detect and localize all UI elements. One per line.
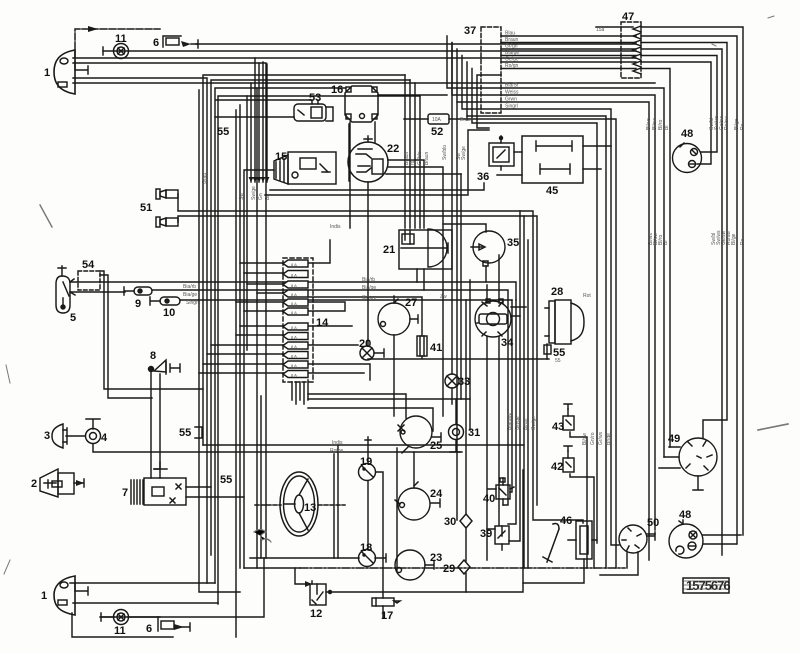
wire battery terminal top	[154, 462, 160, 478]
svg-text:52: 52	[431, 126, 443, 138]
wire 21 top feeds x420	[419, 96, 421, 228]
wire 31 bottom T	[450, 440, 462, 452]
svg-text:Bia/Sr: Bia/Sr	[505, 83, 519, 89]
lamp 18	[359, 550, 387, 567]
connector 51 upper plug	[156, 189, 178, 199]
wire lamp 19 right lead to 17 column	[376, 472, 383, 598]
wire 53 to coil 16	[326, 107, 333, 121]
wire y359 bus 41 to flasher 28	[368, 356, 549, 359]
wire 24 right tick	[431, 499, 440, 507]
svg-text:Bia/rb: Bia/rb	[362, 277, 375, 283]
svg-text:40: 40	[483, 493, 495, 505]
svg-text:Bia/ge: Bia/ge	[362, 285, 376, 291]
svg-text:Ro: Ro	[740, 123, 746, 130]
svg-text:Bia/ge: Bia/ge	[505, 50, 519, 56]
wire battery right pins	[186, 487, 244, 497]
svg-text:8 A: 8 A	[291, 344, 297, 349]
svg-text:Br/ge: Br/ge	[606, 433, 612, 445]
horn relay 35	[471, 231, 505, 266]
wire center bundle x255	[254, 58, 256, 182]
wire 53 left lead	[215, 116, 294, 118]
svg-text:13: 13	[304, 502, 316, 514]
svg-text:8 A: 8 A	[291, 363, 297, 368]
starter 2	[40, 469, 74, 497]
wire 34 bottom drops	[487, 337, 499, 560]
svg-text:45: 45	[546, 185, 558, 197]
wire 51 upper lead across	[178, 194, 583, 523]
wire bottom bus y617	[100, 558, 264, 617]
wire 12 left loop	[295, 568, 305, 584]
wire center bundle x259	[258, 63, 260, 182]
svg-text:30: 30	[444, 516, 456, 528]
wire 49 bottom T	[693, 476, 703, 490]
connector 37 dashed	[481, 27, 501, 113]
svg-text:Ro/sw: Ro/sw	[724, 116, 730, 130]
wire 23 right tick	[425, 561, 434, 569]
wire y78 from headlamp to left frame	[73, 78, 207, 583]
svg-text:54: 54	[82, 259, 95, 271]
switch 43	[563, 404, 574, 430]
wire y63 from headlamp to center bundle	[73, 63, 266, 558]
svg-text:41: 41	[430, 342, 442, 354]
svg-text:Singrl: Singrl	[505, 104, 518, 110]
wire steering 13 left dash	[255, 504, 281, 506]
svg-text:Grau: Grau	[202, 173, 208, 184]
svg-text:48: 48	[679, 509, 691, 521]
headlamp 1 bottom	[54, 576, 88, 615]
wire 36 to 45 link	[514, 151, 522, 153]
svg-text:1: 1	[41, 590, 47, 602]
svg-text:Ro/gn: Ro/gn	[505, 63, 519, 69]
svg-text:Emoe: Emoe	[460, 117, 473, 123]
relay 53	[294, 100, 326, 121]
wire 22 lower right lead	[386, 173, 461, 175]
wire bus y51 through lamp 11 to 47	[103, 50, 636, 52]
svg-text:5: 5	[70, 312, 76, 324]
wire x338 drop	[334, 446, 338, 558]
switch 5	[56, 266, 75, 313]
wire 27 top feed	[393, 296, 395, 303]
svg-text:Singre: Singre	[362, 295, 377, 301]
wire 54 right loop down	[100, 271, 203, 398]
svg-text:8 A: 8 A	[291, 273, 297, 278]
wire x477 drop to relay 36	[477, 75, 501, 128]
lamp 19	[359, 464, 376, 481]
dimmer 54 dashed	[78, 271, 100, 290]
wire 27 bottom to 25	[393, 335, 395, 416]
svg-text:55: 55	[220, 474, 232, 486]
wire y300 bus from connector 10	[180, 299, 512, 301]
svg-text:9: 9	[135, 298, 141, 310]
wire switch 5 top leads into dashed 54	[70, 282, 125, 292]
svg-text:Bia/ge: Bia/ge	[183, 292, 197, 298]
ring 4	[86, 429, 101, 444]
wire 47 pin 15a lead	[596, 27, 743, 535]
bracket 55 mid-left	[195, 427, 202, 438]
svg-text:8 A: 8 A	[291, 373, 297, 378]
svg-text:6: 6	[146, 623, 152, 635]
cutout relay 21	[399, 229, 452, 269]
relay 12	[305, 581, 332, 605]
wire harness 37 row3	[501, 49, 722, 555]
svg-text:21: 21	[383, 244, 395, 256]
svg-text:33: 33	[458, 376, 470, 388]
wire 31 top feed	[455, 399, 457, 424]
wire 28 bottom left drop	[546, 344, 548, 359]
wire 6b right arrow lead	[176, 623, 190, 631]
wire 48b right pins	[703, 535, 741, 544]
drawing number plate	[683, 578, 729, 593]
svg-text:55: 55	[555, 358, 561, 364]
switch 39	[495, 526, 509, 544]
wire bus y44 from connector 6 to 47	[196, 43, 636, 45]
wiper motor 15	[274, 152, 336, 184]
wire left frame x199	[198, 90, 200, 583]
wire stop switch 46 leads	[568, 540, 597, 543]
wire x516 to 39 top pin	[508, 300, 516, 524]
wire stack long y399	[308, 398, 470, 400]
wire x397 cluster bus	[396, 448, 398, 570]
wire 17 column	[382, 606, 384, 618]
svg-text:Rot: Rot	[583, 293, 591, 299]
wire 46 pedal lever	[543, 524, 559, 562]
fusebox 45	[522, 136, 583, 183]
wire 21 top feeds x405	[404, 75, 406, 228]
wire horn 3 to ring 4	[66, 435, 85, 437]
headlamp relay 48 top	[673, 143, 702, 173]
wire 45 right pin2	[583, 168, 601, 170]
svg-text:42: 42	[551, 461, 563, 473]
wire 33 feed	[451, 43, 453, 404]
wire lamp 11b to 6b	[128, 616, 160, 618]
wire x512 to 40 right pin	[510, 300, 512, 492]
wire fuse right leads going right	[308, 240, 422, 380]
wire ring 4 down then right	[93, 444, 460, 452]
fuse strip 14 dashed box	[283, 258, 313, 382]
thermo switch 17	[372, 598, 400, 606]
wire x457 long drop	[456, 102, 458, 520]
svg-text:Zw: Zw	[440, 294, 447, 300]
svg-text:Indis: Indis	[330, 224, 341, 230]
svg-text:8 A: 8 A	[291, 325, 297, 330]
wire ring 4 T-top	[86, 419, 100, 429]
wire stack into 25 right	[308, 408, 433, 431]
svg-text:27: 27	[405, 297, 417, 309]
wire 35 bottom	[485, 266, 487, 282]
svg-text:11: 11	[114, 625, 126, 637]
wire headlamp 1b top bus	[70, 582, 215, 584]
wire harness 37 row2	[501, 43, 727, 439]
svg-text:Bia/rb: Bia/rb	[183, 284, 196, 290]
svg-text:20: 20	[359, 338, 371, 350]
svg-text:2: 2	[31, 478, 37, 490]
svg-text:6: 6	[153, 37, 159, 49]
wire coil 16 bottom to regulator 22	[374, 122, 376, 142]
svg-text:17: 17	[381, 610, 393, 622]
tiny fuse labels 8A	[291, 262, 297, 378]
diamond 29	[458, 560, 470, 574]
wire steering 13 right dash	[318, 504, 345, 506]
wire left frame x211 with top run	[211, 80, 410, 555]
wire headlamp 1b bottom loop	[72, 613, 173, 637]
svg-text:25: 25	[430, 440, 442, 452]
svg-text:Braun: Braun	[424, 151, 430, 165]
svg-text:Sw/ge: Sw/ge	[461, 146, 467, 160]
wire 34 top feeds	[487, 255, 526, 316]
wire harness2 row y116	[467, 62, 606, 568]
wire harness2 row y88	[447, 36, 664, 457]
svg-text:7: 7	[122, 487, 128, 499]
svg-text:36: 36	[477, 171, 489, 183]
wire 6b arrowhead	[174, 624, 184, 630]
svg-text:Sw/blo: Sw/blo	[442, 145, 448, 160]
battery 7	[131, 469, 186, 505]
coil 16	[345, 86, 378, 122]
wire 50 bottom drops	[600, 552, 638, 575]
wire under 15 y195	[265, 130, 489, 195]
svg-text:rot: rot	[410, 159, 416, 165]
flasher 28	[544, 300, 584, 354]
wire bottom bus y558	[250, 557, 359, 559]
wire cigar lighter 8 drops	[151, 371, 160, 478]
svg-text:Bl: Bl	[265, 196, 271, 200]
wire fuse strip bottom stubs	[292, 380, 308, 404]
wire y290 bus from connector 9	[152, 290, 508, 505]
wire 22 right lead 2	[388, 167, 443, 240]
svg-text:Gr/gn: Gr/gn	[505, 44, 518, 50]
wire x257 long drop	[256, 88, 258, 568]
wire fuse feeds left column	[199, 263, 288, 373]
wire left frame x215 run to coil 16	[215, 88, 345, 583]
wire bus y58 from headlamp 1 to 47	[73, 57, 636, 59]
svg-text:8 A: 8 A	[291, 335, 297, 340]
switch 40	[496, 478, 514, 499]
regulator 22	[348, 124, 388, 182]
wire 49 left pins	[659, 447, 680, 468]
wire 21 top feeds x410	[409, 80, 411, 228]
svg-text:46: 46	[560, 515, 572, 527]
svg-text:8: 8	[150, 350, 156, 362]
tiny wire color labels	[183, 31, 591, 455]
wire coil 16 bottom-left down	[349, 122, 351, 228]
wire 45 right pin1	[583, 145, 611, 147]
svg-text:Blau: Blau	[505, 31, 515, 37]
lamp 33	[445, 374, 459, 388]
svg-text:11: 11	[115, 33, 127, 45]
svg-text:1: 1	[44, 67, 50, 79]
svg-text:8 A: 8 A	[291, 301, 297, 306]
wire switch 43 leads	[568, 409, 587, 568]
wire center bundle x263	[262, 62, 264, 182]
svg-text:Weiss: Weiss	[505, 90, 519, 96]
wire top dashed from headlamp 1 up	[75, 29, 160, 58]
relay 36	[489, 136, 514, 166]
svg-text:Gn: Gn	[258, 193, 264, 200]
svg-text:49: 49	[668, 433, 680, 445]
headlamp 1 top	[54, 50, 88, 94]
wire fuse 52 right lead	[449, 119, 616, 568]
ignition switch 34	[475, 299, 511, 337]
svg-text:15: 15	[275, 151, 287, 163]
wire y445 bus	[203, 444, 524, 446]
connector 6 top	[163, 36, 198, 48]
svg-text:19: 19	[360, 456, 372, 468]
lamp 20	[360, 346, 384, 360]
svg-text:Ro: Ro	[740, 238, 746, 245]
wire x466 drop through diamonds	[465, 300, 467, 592]
connector 10	[150, 297, 180, 305]
svg-text:14: 14	[316, 317, 329, 329]
wire 51 lower lead across	[178, 216, 537, 505]
svg-text:4: 4	[101, 432, 108, 444]
horn 3	[52, 424, 67, 448]
svg-text:3: 3	[44, 430, 50, 442]
svg-text:43: 43	[552, 421, 564, 433]
wire bottom bus y568 dashdot	[300, 567, 625, 569]
svg-text:Gr/ws: Gr/ws	[598, 431, 604, 445]
svg-text:8 A: 8 A	[291, 262, 297, 267]
svg-text:Gn/ro: Gn/ro	[590, 432, 596, 445]
wire left frame x203 with top run	[203, 75, 405, 445]
wire 46 bottom drop	[523, 559, 584, 583]
wire starter 2 right stub	[74, 479, 84, 487]
svg-text:8 A: 8 A	[291, 310, 297, 315]
fuse 41	[417, 336, 427, 356]
svg-text:Rotge: Rotge	[330, 448, 344, 454]
wire lamp 11b stub	[101, 613, 114, 621]
wire 50 right pin	[647, 533, 655, 535]
wire 21 bottom drops	[417, 269, 424, 290]
svg-text:34: 34	[501, 337, 514, 349]
wire y83 long to right loop down to lamp 48	[73, 82, 655, 84]
wire dynamo 15 left lead	[244, 170, 274, 568]
svg-text:23: 23	[430, 552, 442, 564]
svg-text:18: 18	[360, 542, 372, 554]
svg-text:35: 35	[507, 237, 519, 249]
wire x247 drop	[246, 96, 248, 350]
wire harness2 row y95	[452, 43, 655, 531]
fuse 52	[428, 114, 449, 124]
wire lamp 19 to 18 column	[367, 481, 369, 549]
wire coil 16 right pin to center-right bundle	[378, 94, 447, 96]
terminal arrowheads on center bundle	[249, 177, 270, 182]
fuel gauge 24	[395, 482, 430, 520]
switch 42	[563, 446, 574, 472]
wire harness 37 row1	[501, 36, 737, 544]
svg-text:31: 31	[468, 427, 480, 439]
wire 48b top tick	[682, 520, 684, 524]
wire y285 bus from switch 5 area to right-center bundle	[100, 282, 516, 300]
turn switch 50	[619, 525, 655, 553]
wire headlamp 1b mid bus	[73, 602, 218, 604]
steering wheel 13	[280, 472, 318, 536]
ignition lamp 48 bottom	[669, 521, 703, 558]
wire harness2 row y109	[462, 56, 619, 546]
wire harness 37 row6	[501, 69, 670, 448]
svg-text:10A: 10A	[432, 117, 442, 123]
wire left frame bottom links	[199, 568, 300, 592]
wire switch 39 leads	[487, 529, 502, 550]
svg-text:Singre: Singre	[186, 300, 201, 306]
wire switch 40 leads	[488, 478, 503, 505]
svg-text:Bl/ge: Bl/ge	[731, 233, 737, 245]
lamp 11 bottom	[114, 610, 129, 625]
svg-text:10: 10	[163, 307, 175, 319]
wire 24 top feed	[413, 452, 415, 488]
light switch 49	[679, 438, 717, 476]
svg-text:12: 12	[310, 608, 322, 620]
gauge 25	[398, 416, 432, 453]
wire starter arrow	[76, 480, 84, 486]
svg-text:Grwn: Grwn	[505, 97, 517, 103]
svg-text:Sw: Sw	[239, 193, 245, 200]
fuse strip 14 fuses	[283, 260, 308, 378]
svg-text:51: 51	[140, 202, 152, 214]
svg-text:15a: 15a	[596, 27, 605, 33]
wire x443 long drop	[442, 240, 444, 416]
connector 47 dashed	[621, 22, 641, 78]
gauge 23	[395, 550, 425, 580]
svg-text:28: 28	[551, 286, 563, 298]
wire center bundle x251	[250, 83, 252, 182]
svg-text:55: 55	[217, 126, 229, 138]
drawing number hatch	[684, 581, 728, 589]
svg-text:Bl/gn: Bl/gn	[523, 418, 529, 430]
wire center bundle x267	[266, 64, 268, 182]
diamond 30	[460, 514, 472, 528]
stop switch 46	[576, 521, 592, 559]
wire harness2 row y123	[472, 69, 597, 541]
wire x470 drop	[469, 280, 471, 430]
wire harness2 row y102	[457, 49, 649, 560]
wire 21 top feeds x415	[414, 83, 416, 228]
wire 53 upper left lead	[216, 100, 312, 568]
svg-text:53: 53	[309, 92, 321, 104]
svg-text:Ge/ge: Ge/ge	[505, 57, 519, 63]
svg-text:Braun: Braun	[505, 37, 519, 43]
wire harness 37 row4	[501, 56, 717, 153]
wire 22 right leads to 21 bundle	[388, 160, 424, 228]
wire 35 left tick	[443, 224, 486, 232]
wire 25 right tick	[432, 433, 441, 441]
wire 36 relay bottom lead	[497, 166, 522, 175]
wire right-center bundle x528 to bottom bus	[527, 240, 529, 568]
connector 6 bottom	[158, 617, 174, 631]
connector 51 lower plug	[156, 217, 178, 227]
svg-text:Bia/swz: Bia/swz	[507, 412, 513, 430]
svg-text:22: 22	[387, 143, 399, 155]
wire switch 42 leads	[568, 451, 594, 568]
svg-text:8 A: 8 A	[291, 283, 297, 288]
svg-text:Bl: Bl	[664, 126, 670, 130]
wire harness 37 row5	[501, 62, 711, 164]
wire lamp 19 top feed	[365, 437, 371, 463]
wire arrow on top dashed wire	[88, 26, 98, 32]
svg-text:48: 48	[681, 128, 693, 140]
wire x461 drop	[460, 174, 462, 399]
svg-text:Bl/sw: Bl/sw	[582, 433, 588, 445]
svg-text:8 A: 8 A	[291, 292, 297, 297]
svg-text:Sw/ge: Sw/ge	[251, 186, 257, 200]
svg-text:29: 29	[443, 563, 455, 575]
svg-text:47: 47	[622, 11, 634, 23]
wire right-center bundle x524 to bottom bus	[523, 216, 525, 568]
wire under 15 y190	[270, 183, 484, 190]
svg-text:Bl: Bl	[663, 241, 669, 245]
svg-text:50: 50	[647, 517, 659, 529]
wire x280 drop	[260, 396, 262, 558]
svg-text:Indis: Indis	[332, 440, 343, 446]
